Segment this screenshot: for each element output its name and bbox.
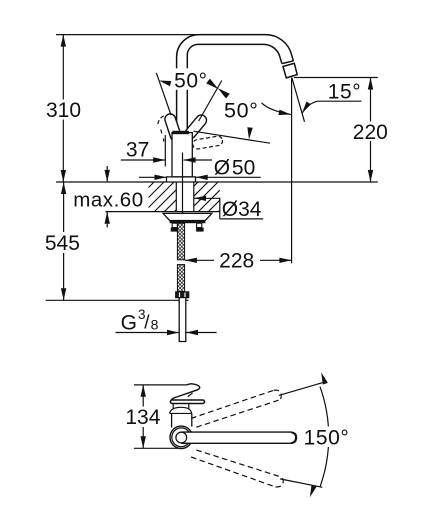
svg-text:15°: 15° [328,80,362,103]
svg-text:134: 134 [125,406,160,429]
svg-text:228: 228 [219,249,254,272]
svg-text:545: 545 [45,232,80,255]
svg-text:50°: 50° [224,98,259,122]
svg-text:max.60: max.60 [73,188,144,211]
svg-text:G: G [121,312,137,335]
svg-text:/: / [144,313,150,334]
svg-text:50°: 50° [174,69,208,92]
svg-text:Ø50: Ø50 [214,156,255,179]
svg-text:8: 8 [151,317,159,333]
svg-text:310: 310 [46,99,81,122]
svg-text:37: 37 [126,139,149,162]
svg-text:220: 220 [353,121,388,144]
svg-text:Ø34: Ø34 [222,198,262,221]
svg-text:150°: 150° [304,427,350,450]
